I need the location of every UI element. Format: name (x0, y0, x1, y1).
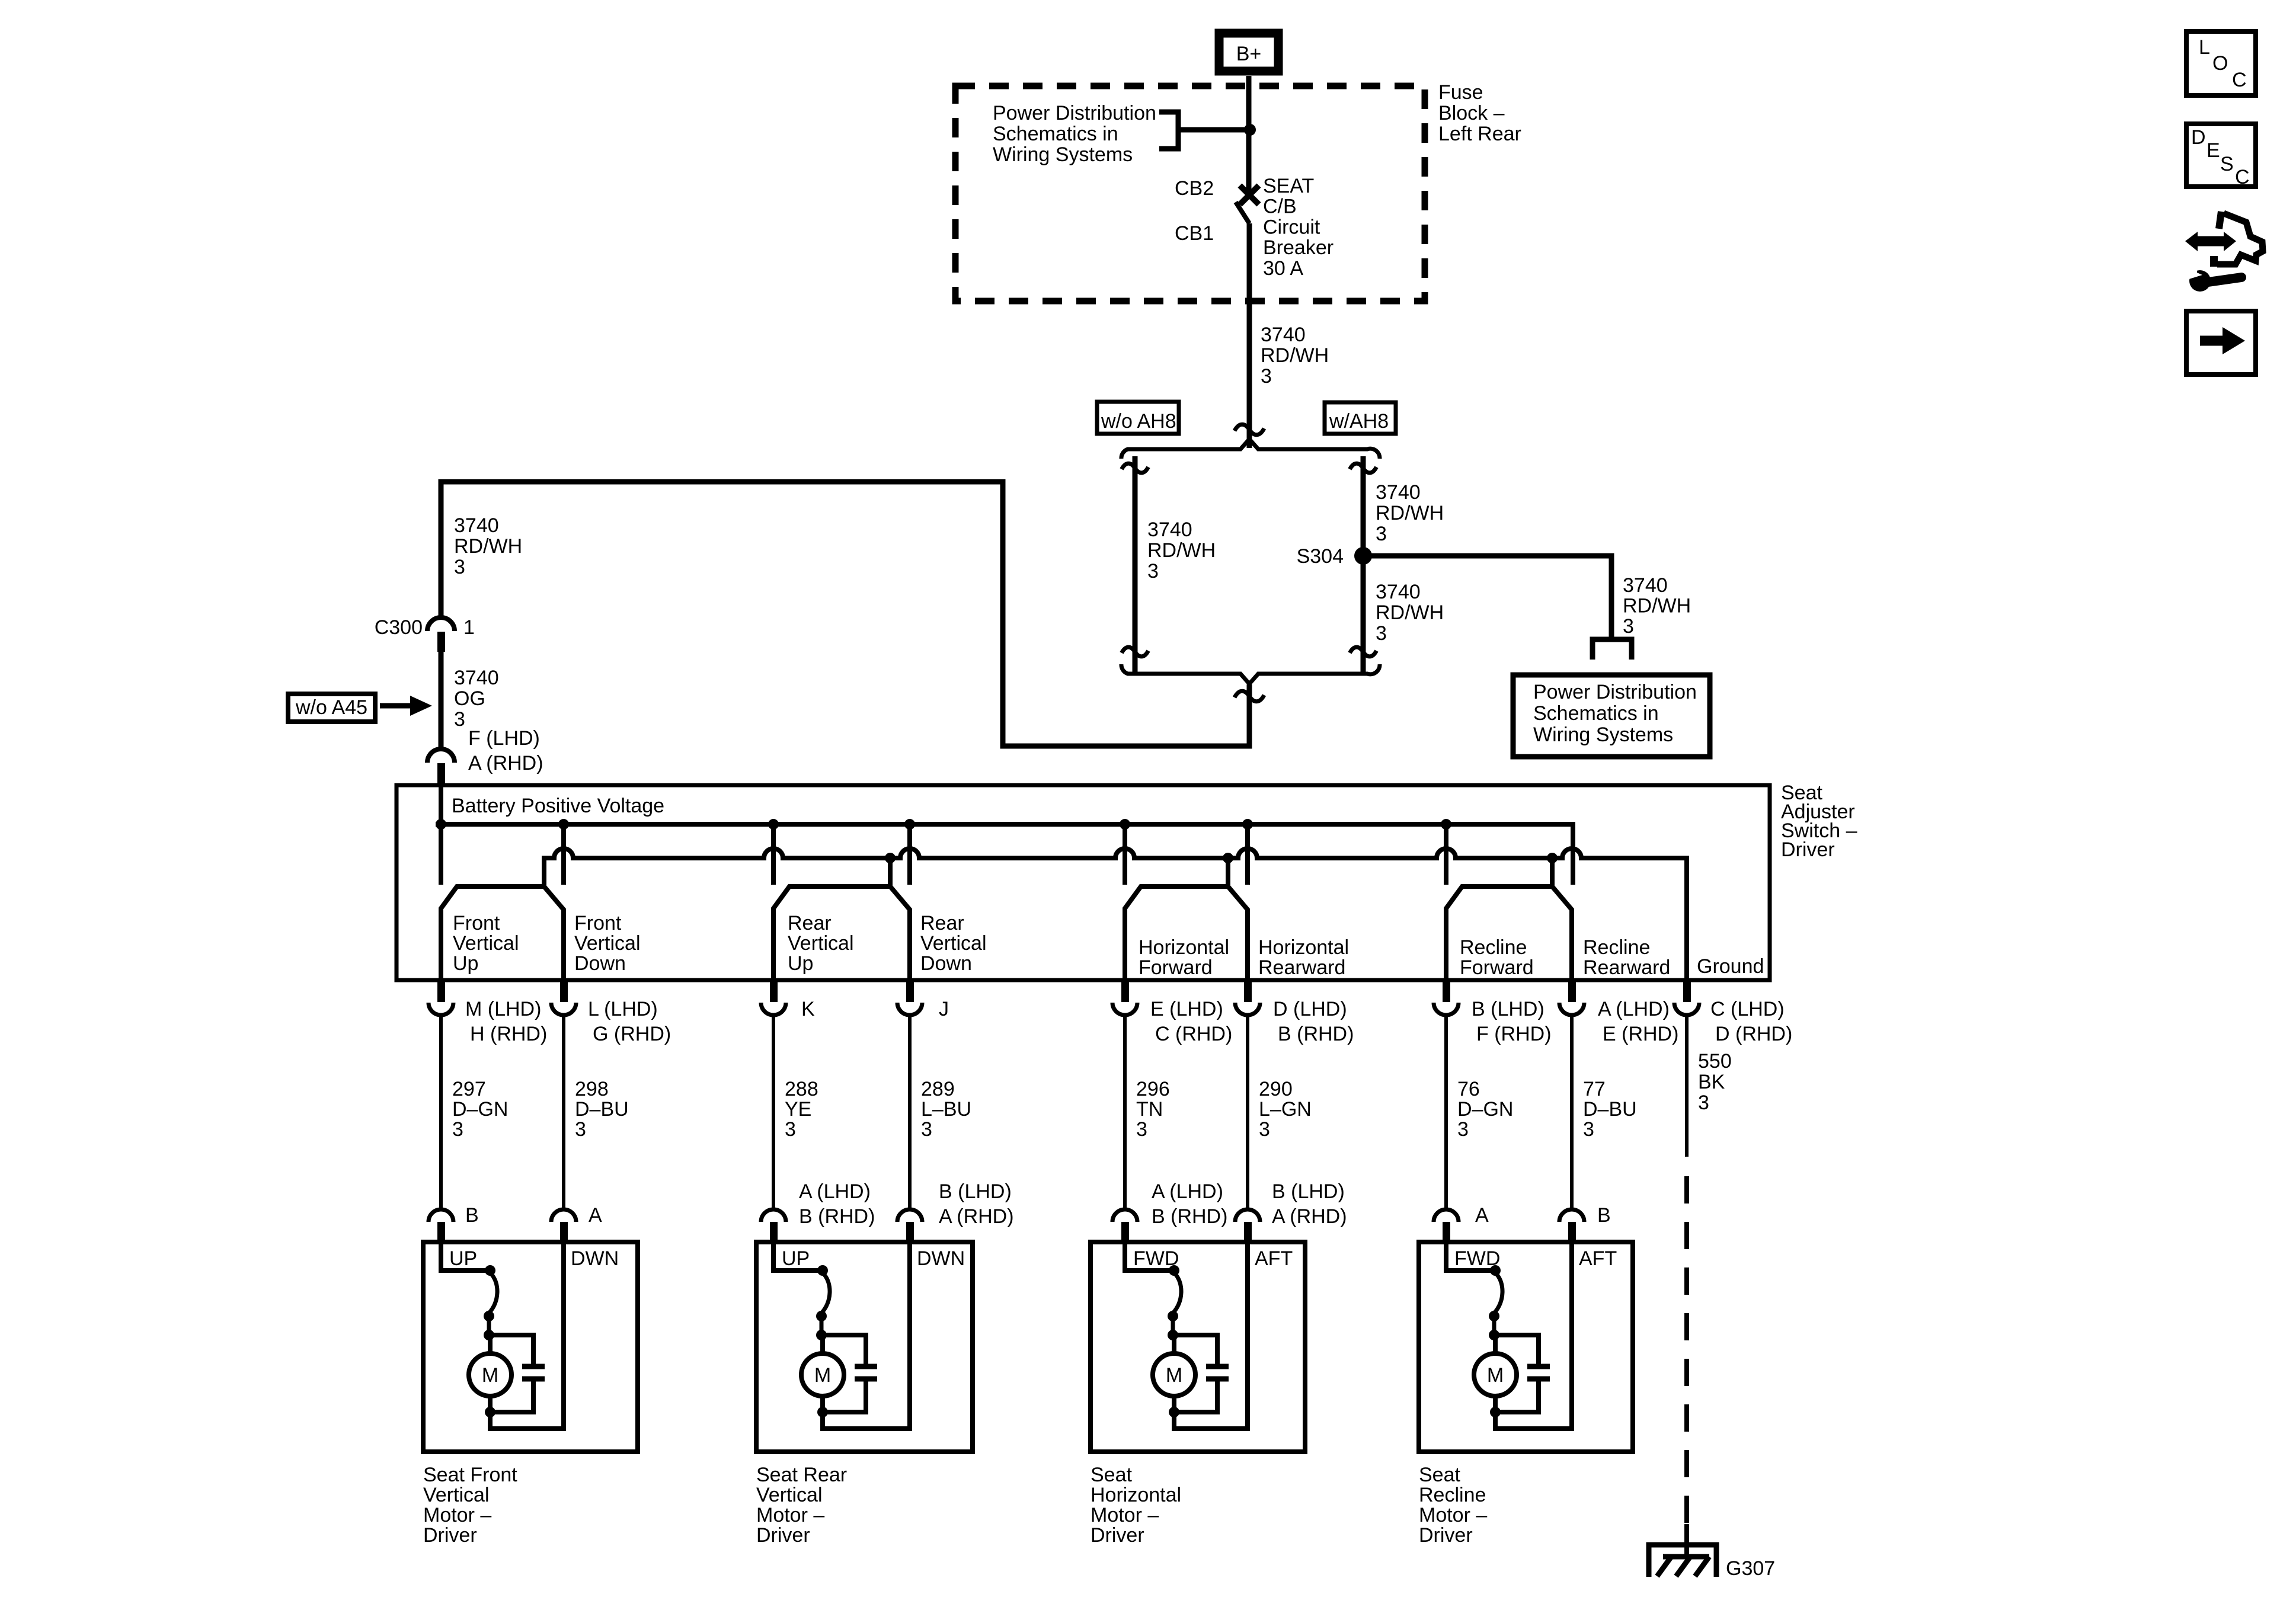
svg-text:298: 298 (575, 1078, 609, 1100)
wire label 3740 RD/WH 3 (below fuse block) (1261, 324, 1329, 388)
switch pin label C (LHD) (1710, 998, 1792, 1045)
power symbol B+ box (1219, 33, 1278, 71)
svg-text:B+: B+ (1236, 43, 1262, 65)
svg-text:3: 3 (454, 708, 465, 731)
junction dot bus1 x=1898 (1120, 819, 1130, 830)
svg-text:3740: 3740 (1147, 518, 1192, 541)
switch wiper (trapezoid) pair 2 (773, 886, 910, 980)
ground wire dashed segment (1684, 1176, 1689, 1524)
svg-text:Rear: Rear (788, 912, 832, 934)
svg-text:w/o A45: w/o A45 (295, 696, 367, 719)
label SEAT C/B Circuit Breaker 30 A (1263, 175, 1334, 280)
svg-text:A (RHD): A (RHD) (1272, 1205, 1347, 1228)
svg-text:Block –: Block – (1438, 102, 1505, 124)
switch pin stub x=1898 (1121, 980, 1129, 1002)
icon double arrow with pointer outline and wrench (2183, 212, 2263, 292)
svg-text:RD/WH: RD/WH (1376, 601, 1444, 624)
motor M seat recline motor - driver (1419, 1209, 1633, 1452)
svg-text:A: A (589, 1204, 602, 1227)
svg-text:Motor –: Motor – (1091, 1504, 1159, 1526)
option box w/o A45 (288, 694, 375, 722)
switch contact drop x=2440 (1444, 824, 1448, 885)
label Horizontal Forward (1139, 936, 1229, 979)
svg-text:30 A: 30 A (1263, 257, 1303, 280)
junction dot bus1 x=951 (558, 819, 569, 830)
circuit breaker CB2/CB1 contact X (1240, 185, 1259, 204)
svg-text:3: 3 (1376, 622, 1387, 645)
svg-text:M (LHD): M (LHD) (465, 998, 541, 1020)
svg-text:Motor –: Motor – (423, 1504, 491, 1526)
svg-text:FWD: FWD (1133, 1247, 1179, 1270)
svg-text:DWN: DWN (917, 1247, 965, 1270)
svg-text:BK: BK (1698, 1071, 1725, 1093)
wire switch pin to motor x=1305 (772, 1016, 775, 1209)
junction dot bus1 x=1535 (904, 819, 915, 830)
svg-text:A: A (1475, 1204, 1489, 1227)
svg-text:3: 3 (1457, 1118, 1469, 1141)
svg-text:76: 76 (1457, 1078, 1480, 1100)
switch pin stub x=744 (437, 980, 445, 1002)
icon forward arrow box (2186, 311, 2256, 375)
svg-text:290: 290 (1259, 1078, 1293, 1100)
svg-text:3: 3 (1136, 1118, 1147, 1141)
svg-text:289: 289 (921, 1078, 955, 1100)
motor pin label A (LHD) B (RHD) horizontal left (1152, 1180, 1227, 1228)
svg-text:B (LHD): B (LHD) (1272, 1180, 1345, 1203)
switch pin stub x=1305 (770, 980, 778, 1002)
switch pin stub x=1535 (906, 980, 914, 1002)
svg-text:Vertical: Vertical (574, 932, 641, 955)
svg-text:A (LHD): A (LHD) (799, 1180, 871, 1203)
svg-text:B (RHD): B (RHD) (1278, 1023, 1354, 1045)
svg-text:M: M (814, 1364, 831, 1387)
switch pin stub x=2440 (1443, 980, 1450, 1002)
switch pin label D (LHD) (1273, 998, 1354, 1045)
svg-text:B: B (465, 1204, 479, 1227)
wire option branches merge, route to C300 (441, 482, 1249, 746)
svg-text:3740: 3740 (1261, 324, 1306, 346)
switch pin label K (801, 998, 815, 1020)
svg-text:3: 3 (1259, 1118, 1270, 1141)
top option brace (1121, 439, 1380, 459)
svg-text:Driver: Driver (756, 1524, 810, 1547)
svg-text:A (RHD): A (RHD) (939, 1205, 1014, 1228)
svg-text:F (LHD): F (LHD) (468, 727, 540, 750)
connector into seat adjuster switch (427, 749, 455, 763)
svg-text:3: 3 (785, 1118, 796, 1141)
label Seat Rear Vertical Motor – Driver (756, 1464, 847, 1547)
svg-text:Left Rear: Left Rear (1438, 123, 1521, 145)
svg-text:Circuit: Circuit (1263, 216, 1320, 238)
squiggle bottom of right branch (1350, 647, 1377, 657)
junction dot bus2 x=2072 (1223, 853, 1233, 863)
svg-text:Driver: Driver (1419, 1524, 1473, 1547)
junction dot bus2 x=1502 (885, 853, 896, 863)
icon DESC box (2186, 124, 2256, 188)
svg-text:B (RHD): B (RHD) (1152, 1205, 1227, 1228)
box power distribution schematics (right) (1513, 675, 1710, 757)
switch connector arc x=744 (428, 1003, 453, 1015)
switch connector arc x=2652 (1559, 1003, 1584, 1015)
label Seat Front Vertical Motor – Driver (423, 1464, 517, 1547)
svg-text:3: 3 (454, 556, 465, 578)
option box w/AH8 (1325, 402, 1396, 434)
svg-text:3740: 3740 (1376, 481, 1421, 504)
svg-text:K: K (801, 998, 815, 1020)
svg-text:C: C (2232, 69, 2247, 91)
arrow w/o A45 (380, 703, 411, 709)
svg-text:Motor –: Motor – (1419, 1504, 1487, 1526)
wire label 298 D–BU 3 (575, 1078, 629, 1141)
switch contact drop x=2105 (1245, 824, 1250, 885)
svg-text:Up: Up (788, 952, 813, 975)
motor M seat rear vertical motor - driver (756, 1209, 973, 1452)
svg-text:C (RHD): C (RHD) (1155, 1023, 1232, 1045)
svg-text:Recline: Recline (1460, 936, 1527, 959)
svg-text:Horizontal: Horizontal (1091, 1484, 1181, 1506)
wire switch pin to motor x=744 (439, 1016, 443, 1209)
svg-text:D–BU: D–BU (575, 1098, 629, 1121)
svg-text:Battery Positive Voltage: Battery Positive Voltage (452, 795, 664, 817)
wire continuation squiggle above option brace (1235, 424, 1264, 435)
switch connector arc x=2105 (1235, 1003, 1260, 1015)
svg-text:3: 3 (1583, 1118, 1594, 1141)
svg-text:3: 3 (1261, 365, 1272, 388)
switch pin label M (LHD) (465, 998, 547, 1045)
svg-text:C300: C300 (375, 616, 423, 639)
motor pin label B (LHD) A (RHD) horizontal right (1272, 1180, 1347, 1228)
svg-text:RD/WH: RD/WH (1376, 502, 1444, 524)
svg-text:296: 296 (1136, 1078, 1170, 1100)
ground bus branch x=2072 (1226, 858, 1230, 886)
svg-text:D (LHD): D (LHD) (1273, 998, 1347, 1020)
connector C300 pin 1 (427, 617, 455, 631)
switch pin label J (939, 998, 949, 1020)
motor M seat horizontal motor - driver (1091, 1209, 1305, 1452)
wire C300 to seat adjuster switch connector (439, 652, 444, 748)
squiggle top of left branch (1122, 463, 1149, 473)
switch contact drop x=1305 (771, 824, 776, 885)
svg-text:297: 297 (452, 1078, 486, 1100)
svg-text:w/o AH8: w/o AH8 (1101, 410, 1176, 433)
svg-text:AFT: AFT (1255, 1247, 1293, 1270)
switch pin stub x=2105 (1244, 980, 1252, 1002)
svg-text:Horizontal: Horizontal (1258, 936, 1349, 959)
svg-text:B: B (1597, 1204, 1611, 1227)
wire switch pin to motor x=2652 (1570, 1016, 1574, 1209)
svg-text:J: J (939, 998, 949, 1020)
svg-text:H (RHD): H (RHD) (470, 1023, 547, 1045)
wire label 3740 RD/WH 3 (below S304) (1376, 581, 1444, 645)
svg-text:Power Distribution: Power Distribution (993, 102, 1156, 124)
svg-text:Driver: Driver (1781, 838, 1835, 861)
ground wire solid segment (1685, 1016, 1689, 1157)
svg-text:Up: Up (453, 952, 478, 975)
switch connector arc x=2846 (1674, 1003, 1699, 1015)
svg-text:RD/WH: RD/WH (1623, 595, 1691, 617)
wire switch pin to motor x=951 (562, 1016, 565, 1209)
svg-text:C/B: C/B (1263, 196, 1297, 218)
svg-text:A (LHD): A (LHD) (1152, 1180, 1223, 1203)
svg-text:Seat: Seat (1419, 1464, 1460, 1486)
svg-text:SEAT: SEAT (1263, 175, 1314, 197)
label Seat Horizontal Motor – Driver (1091, 1464, 1181, 1547)
svg-text:L–BU: L–BU (921, 1098, 971, 1121)
svg-text:Forward: Forward (1460, 956, 1534, 979)
svg-text:Vertical: Vertical (423, 1484, 490, 1506)
svg-text:3740: 3740 (1376, 581, 1421, 603)
switch contact drop x=1898 (1123, 824, 1127, 885)
svg-text:1: 1 (463, 616, 475, 639)
svg-text:Schematics in: Schematics in (1533, 702, 1659, 725)
label Front Vertical Down (574, 912, 641, 975)
svg-text:C (LHD): C (LHD) (1710, 998, 1785, 1020)
switch pin stub x=2846 (1683, 980, 1691, 1002)
svg-text:D–BU: D–BU (1583, 1098, 1637, 1121)
svg-text:E: E (2207, 139, 2220, 162)
switch wiper (trapezoid) pair 4 (1446, 886, 1572, 980)
svg-text:3740: 3740 (454, 667, 499, 689)
svg-text:OG: OG (454, 687, 485, 710)
svg-text:D (RHD): D (RHD) (1715, 1023, 1792, 1045)
svg-text:Rear: Rear (920, 912, 964, 934)
squiggle top of right branch (1350, 463, 1377, 473)
label Seat Recline Motor – Driver (1419, 1464, 1487, 1547)
svg-text:Vertical: Vertical (920, 932, 987, 955)
label Seat Adjuster Switch - Driver (1781, 782, 1857, 861)
svg-text:3740: 3740 (454, 514, 499, 537)
switch pin label L (LHD) (588, 998, 671, 1045)
wire label 297 D–GN 3 (452, 1078, 508, 1141)
switch pin label E (LHD) (1150, 998, 1232, 1045)
svg-text:Front: Front (574, 912, 622, 934)
circuit breaker blade (1236, 202, 1249, 223)
squiggle bottom of left branch (1122, 647, 1149, 657)
wire switch pin to motor x=1535 (908, 1016, 912, 1209)
svg-text:77: 77 (1583, 1078, 1606, 1100)
wire label 3740 OG 3 (454, 667, 499, 731)
switch contact drop x=1535 (907, 824, 912, 885)
svg-text:B (LHD): B (LHD) (1472, 998, 1544, 1020)
svg-text:3: 3 (452, 1118, 463, 1141)
svg-text:B (RHD): B (RHD) (799, 1205, 875, 1228)
svg-text:Driver: Driver (1091, 1524, 1144, 1547)
wire label 3740 RD/WH 3 (to C300) (454, 514, 522, 578)
svg-text:E (LHD): E (LHD) (1150, 998, 1223, 1020)
svg-text:A (LHD): A (LHD) (1598, 998, 1670, 1020)
svg-text:Power Distribution: Power Distribution (1533, 681, 1697, 703)
switch wiper (trapezoid) pair 3 (1125, 886, 1248, 980)
svg-text:RD/WH: RD/WH (1261, 344, 1329, 367)
svg-text:L (LHD): L (LHD) (588, 998, 658, 1020)
ground wire into ground symbol (1684, 1524, 1689, 1557)
ground bus branch x=2619 (1550, 858, 1555, 886)
switch contact drop x=951 (561, 824, 566, 885)
ground symbol G307 (1649, 1545, 1716, 1577)
svg-text:M: M (482, 1364, 498, 1387)
wire bracket to B+ feed (1178, 127, 1250, 133)
wire label 77 D–BU 3 (1583, 1078, 1637, 1141)
bracket symbol next to power distribution text (1159, 112, 1178, 149)
motor pin label A (LHD) B (RHD) rear left (799, 1180, 875, 1228)
off-page tab connector to power distribution (1593, 639, 1632, 660)
svg-text:Seat: Seat (1091, 1464, 1132, 1486)
svg-text:E (RHD): E (RHD) (1603, 1023, 1678, 1045)
wire label 3740 RD/WH 3 (left branch) (1147, 518, 1216, 582)
svg-text:D–GN: D–GN (1457, 1098, 1513, 1121)
switch pin label B (LHD) (1472, 998, 1552, 1045)
svg-text:Rearward: Rearward (1258, 956, 1345, 979)
ground bus branch x=1502 (888, 858, 893, 886)
svg-text:3740: 3740 (1623, 574, 1668, 597)
svg-text:M: M (1487, 1364, 1504, 1387)
svg-text:C: C (2235, 166, 2250, 188)
wire label 288 YE 3 (785, 1078, 818, 1141)
svg-text:3: 3 (921, 1118, 932, 1141)
label Rear Vertical Down (920, 912, 987, 975)
svg-text:RD/WH: RD/WH (454, 535, 522, 558)
svg-text:3: 3 (575, 1118, 586, 1141)
svg-text:G (RHD): G (RHD) (593, 1023, 671, 1045)
battery positive bus (bus1) (436, 824, 1573, 885)
svg-text:L–GN: L–GN (1259, 1098, 1312, 1121)
svg-text:Rearward: Rearward (1583, 956, 1670, 979)
svg-text:B (LHD): B (LHD) (939, 1180, 1012, 1203)
svg-text:Down: Down (574, 952, 626, 975)
svg-text:Driver: Driver (423, 1524, 477, 1547)
switch pin stub x=2652 (1568, 980, 1576, 1002)
svg-text:S: S (2220, 153, 2234, 175)
svg-text:A (RHD): A (RHD) (468, 752, 543, 774)
wire label 289 L–BU 3 (921, 1078, 971, 1141)
bottom option brace (1121, 664, 1380, 684)
wire label 296 TN 3 (1136, 1078, 1170, 1141)
junction dot bus2 x=2619 (1547, 853, 1558, 863)
svg-text:M: M (1166, 1364, 1182, 1387)
svg-text:CB1: CB1 (1175, 222, 1214, 245)
squiggle below bottom brace (1235, 691, 1264, 702)
switch pin label A (LHD) (1598, 998, 1678, 1045)
label Recline Rearward (1583, 936, 1670, 979)
wire S304 to power distribution tab (1363, 556, 1611, 639)
switch pin stub x=951 (560, 980, 568, 1002)
wire label 76 D–GN 3 (1457, 1078, 1513, 1141)
svg-text:Down: Down (920, 952, 972, 975)
junction dot on B+ feed (1244, 124, 1256, 136)
svg-text:3: 3 (1376, 523, 1387, 545)
box seat adjuster switch - driver (396, 785, 1770, 980)
svg-text:Wiring Systems: Wiring Systems (993, 143, 1133, 166)
wire B+ down to circuit breaker (1246, 76, 1252, 193)
junction dot bus1 x=2440 (1441, 819, 1451, 830)
svg-text:DWN: DWN (571, 1247, 619, 1270)
svg-text:Recline: Recline (1583, 936, 1650, 959)
icon LOC box (2186, 31, 2256, 95)
label Rear Vertical Up (788, 912, 854, 975)
label power distribution schematics in wiring systems (right box) (1533, 681, 1697, 746)
svg-text:UP: UP (449, 1247, 477, 1270)
svg-text:D: D (2191, 126, 2206, 149)
switch wiper (trapezoid) pair 1 (441, 886, 564, 980)
label Front Vertical Up (453, 912, 519, 975)
wire circuit breaker down to option brace (1247, 223, 1252, 448)
label power distribution schematics in wiring systems (fuse block) (993, 102, 1156, 166)
junction dot bus1 x=744 (436, 819, 446, 830)
svg-text:3: 3 (1623, 615, 1634, 638)
svg-text:AFT: AFT (1579, 1247, 1617, 1270)
svg-text:288: 288 (785, 1078, 818, 1100)
svg-text:Vertical: Vertical (453, 932, 519, 955)
wire label 3740 RD/WH 3 (S304 branch) (1623, 574, 1691, 638)
svg-text:550: 550 (1698, 1050, 1732, 1073)
motor pin label B (LHD) A (RHD) rear right (939, 1180, 1014, 1228)
wire switch pin to motor x=2440 (1444, 1016, 1448, 1209)
svg-text:Front: Front (453, 912, 500, 934)
svg-text:Recline: Recline (1419, 1484, 1486, 1506)
svg-text:Forward: Forward (1139, 956, 1213, 979)
ground bus (bus2) with hops (544, 849, 1687, 980)
svg-text:Schematics in: Schematics in (993, 123, 1118, 145)
svg-text:CB2: CB2 (1175, 177, 1214, 200)
fuse block dashed box Fuse Block - Left Rear (955, 86, 1425, 301)
svg-text:Vertical: Vertical (788, 932, 854, 955)
wire right option branch (w/AH8) (1361, 456, 1366, 674)
wire switch pin to motor x=1898 (1123, 1016, 1127, 1209)
svg-text:Motor –: Motor – (756, 1504, 824, 1526)
svg-text:Seat Rear: Seat Rear (756, 1464, 847, 1486)
svg-text:RD/WH: RD/WH (1147, 539, 1216, 562)
wire label 550 BK 3 (1698, 1050, 1732, 1114)
wire label 290 L–GN 3 (1259, 1078, 1312, 1141)
svg-text:3: 3 (1698, 1092, 1709, 1114)
svg-text:FWD: FWD (1454, 1247, 1500, 1270)
junction dot bus1 x=1305 (768, 819, 779, 830)
svg-text:YE: YE (785, 1098, 811, 1121)
svg-text:Breaker: Breaker (1263, 236, 1334, 259)
svg-text:TN: TN (1136, 1098, 1163, 1121)
wire label 3740 RD/WH 3 (above S304) (1376, 481, 1444, 545)
wire switch pin to motor x=2105 (1246, 1016, 1249, 1209)
svg-text:G307: G307 (1726, 1557, 1775, 1580)
label Recline Forward (1460, 936, 1534, 979)
svg-text:Horizontal: Horizontal (1139, 936, 1229, 959)
switch connector arc x=1535 (897, 1003, 922, 1015)
switch connector arc x=2440 (1434, 1003, 1459, 1015)
svg-text:Vertical: Vertical (756, 1484, 823, 1506)
svg-text:Fuse: Fuse (1438, 81, 1483, 104)
svg-text:Seat Front: Seat Front (423, 1464, 517, 1486)
switch connector arc x=951 (551, 1003, 576, 1015)
svg-text:O: O (2212, 52, 2228, 75)
svg-text:D–GN: D–GN (452, 1098, 508, 1121)
switch connector arc x=1898 (1112, 1003, 1137, 1015)
option box w/o AH8 (1097, 402, 1179, 434)
svg-text:UP: UP (782, 1247, 810, 1270)
label Fuse Block - Left Rear (1438, 81, 1521, 145)
switch connector arc x=1305 (761, 1003, 786, 1015)
switch contact drop x=744 (439, 785, 443, 885)
svg-text:w/AH8: w/AH8 (1329, 410, 1389, 433)
motor M seat front vertical motor - driver (423, 1209, 638, 1452)
svg-text:Wiring Systems: Wiring Systems (1533, 724, 1673, 746)
svg-text:S304: S304 (1297, 545, 1344, 568)
svg-text:3: 3 (1147, 560, 1159, 582)
wire left option branch (w/o AH8) (1133, 456, 1138, 674)
junction dot bus1 x=2105 (1242, 819, 1253, 830)
splice S304 dot (1354, 547, 1372, 565)
svg-text:F (RHD): F (RHD) (1476, 1023, 1552, 1045)
svg-text:L: L (2199, 36, 2210, 59)
